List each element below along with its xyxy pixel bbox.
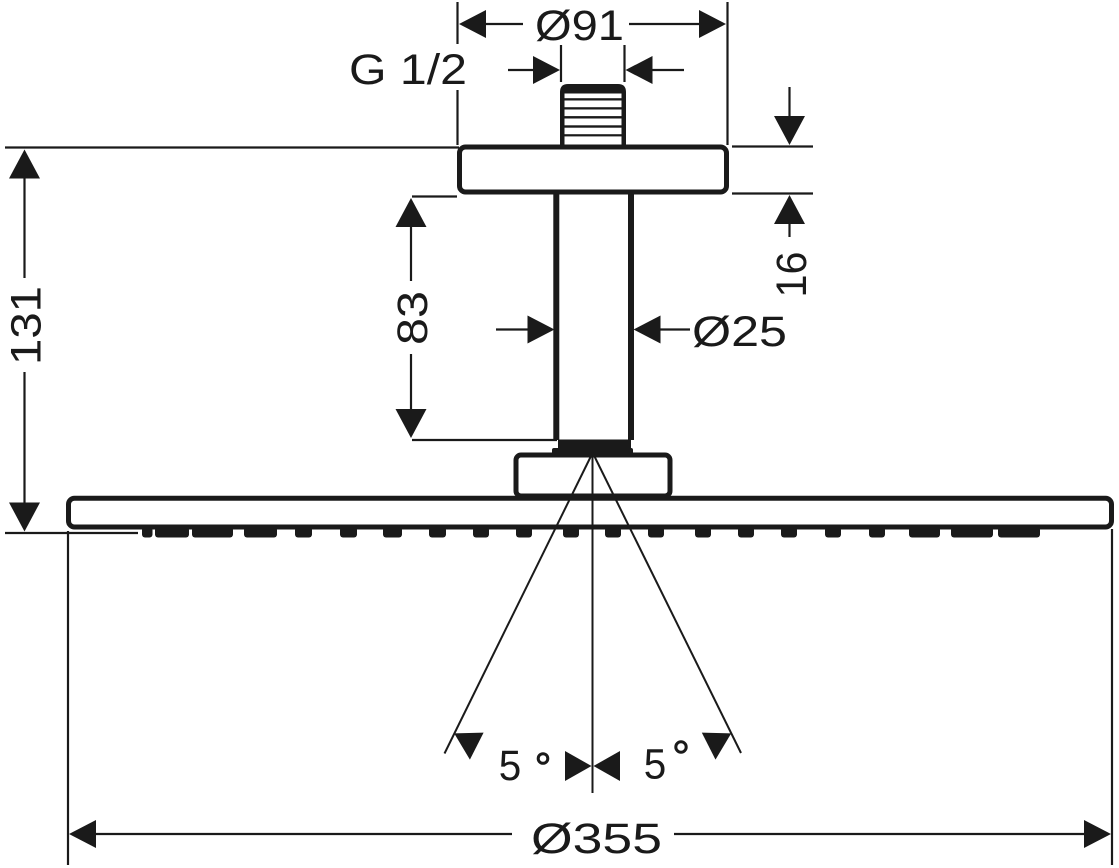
connecting pipe: left wall <box>553 194 559 440</box>
dimension 83: upper arrowhead pointing up <box>396 198 427 227</box>
dimension Ø91: right extension line <box>726 2 728 145</box>
dimension G1/2: nipple left extension line <box>560 45 562 82</box>
dimension Ø91: left extension line (broken for G1/2 text) <box>456 2 458 145</box>
dimension 16: lower arrowhead pointing up <box>774 195 805 224</box>
dimension Ø25: right arrow line <box>660 328 690 330</box>
spray nozzle row <box>142 527 1040 538</box>
dimension G1/2: right arrow line <box>651 69 684 71</box>
spray angle label right: degree circle <box>676 742 686 752</box>
spray angle bowtie: right triangle pointing left <box>594 751 621 781</box>
spray cone: center line <box>592 452 594 793</box>
svg-text:83: 83 <box>389 291 437 345</box>
dimension 83: top extension line <box>412 195 457 197</box>
threaded nipple G1/2: body outline with rounded cap <box>560 84 626 147</box>
svg-text:5: 5 <box>499 742 522 790</box>
pipe bottom collar bar <box>558 440 631 450</box>
svg-text:Ø355: Ø355 <box>531 815 662 863</box>
dimension Ø25: left arrowhead pointing right <box>528 316 555 344</box>
spray cone: left boundary line <box>445 452 594 754</box>
dimension 16: upper arrowhead pointing down <box>774 116 805 145</box>
dimension 131: upper arrowhead pointing up <box>9 150 40 179</box>
spray angle label left: degree circle <box>538 754 548 764</box>
dimension G1/2: right arrowhead pointing left <box>626 56 653 84</box>
ceiling plate (escutcheon) <box>460 147 727 192</box>
svg-text:131: 131 <box>3 286 51 365</box>
spray cone: left arrowhead <box>454 733 483 760</box>
threaded nipple: white interior <box>565 94 622 147</box>
svg-text:16: 16 <box>768 252 816 298</box>
shower head plate <box>69 498 1112 527</box>
svg-text:G 1/2: G 1/2 <box>349 46 467 94</box>
dimension 83: bottom extension line <box>412 439 557 441</box>
dimension Ø355: left extension line <box>67 531 69 865</box>
connecting pipe: right wall <box>628 194 634 440</box>
dimension 16: upper extension line <box>732 145 813 147</box>
dimension Ø355: right extension line <box>1111 529 1113 865</box>
dimension Ø25: left arrow line <box>496 328 529 330</box>
spray cone: right boundary line <box>592 452 741 753</box>
dimension G1/2: nipple right extension line <box>623 45 625 82</box>
pipe bottom wider collar bar <box>552 448 633 455</box>
dimension 131: top extension line <box>5 146 459 148</box>
dimension Ø91: left arrowhead <box>459 10 486 38</box>
dimension Ø355: right arrowhead <box>1084 820 1111 848</box>
dimension 131: dimension line segments <box>23 177 25 504</box>
dimension 131: bottom extension line <box>5 532 138 534</box>
dimension G1/2: left arrow line <box>508 69 536 71</box>
threaded nipple: thread stripes <box>565 98 622 136</box>
spray angle bowtie: left triangle pointing right <box>565 751 592 781</box>
dimension Ø91: dimension line segments <box>482 23 701 25</box>
dimension 83: lower arrowhead pointing down <box>396 409 427 438</box>
dimension 131: lower arrowhead pointing down <box>9 503 40 532</box>
dimension 16: upper arrow line <box>788 87 790 121</box>
svg-text:Ø91: Ø91 <box>535 2 624 50</box>
dimension 16: lower arrow line <box>788 220 790 237</box>
svg-text:Ø25: Ø25 <box>692 308 787 356</box>
dimension 83: dimension line segments <box>410 224 412 413</box>
dimension Ø25: right arrowhead pointing left <box>634 316 661 344</box>
dimension G1/2: left arrowhead pointing right <box>533 56 560 84</box>
dimension 16: lower extension line <box>732 192 813 194</box>
dimension Ø355: dimension line segments <box>94 833 1086 835</box>
lower flange (shower head connector) <box>516 455 670 496</box>
spray cone: right arrowhead <box>702 733 731 760</box>
dimension Ø91: right arrowhead <box>699 10 726 38</box>
svg-text:5: 5 <box>644 741 667 789</box>
dimension Ø355: left arrowhead <box>69 820 96 848</box>
